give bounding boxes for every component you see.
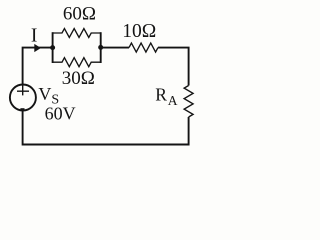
wire: node B to 10-ohm resistor: [101, 47, 129, 49]
svg-text:60Ω: 60Ω: [63, 4, 96, 25]
node B junction dot: [98, 45, 103, 50]
svg-text:I: I: [31, 26, 38, 47]
voltage source plus sign: [17, 85, 29, 95]
wire: 10-ohm resistor to right vertical down to RA top: [158, 48, 189, 86]
wire: bottom loop (source bottom, bottom rail, right vertical up to RA bottom): [23, 111, 189, 145]
voltage source minus sign: [20, 108, 24, 110]
svg-text:60V: 60V: [45, 104, 76, 124]
node A junction dot: [50, 45, 55, 50]
wire: parallel box left vertical: [52, 32, 54, 63]
resistor R 30ohm (bottom branch zigzag with stubs): [53, 58, 101, 67]
resistor RA vertical zigzag: [184, 86, 193, 118]
svg-text:30Ω: 30Ω: [62, 68, 95, 89]
wire: left vertical + top-left horizontal to node A: [23, 48, 53, 85]
resistor R 60ohm (top branch zigzag with stubs): [53, 29, 101, 38]
resistor 10ohm zigzag: [129, 43, 158, 52]
current arrow I (filled triangle on wire): [34, 44, 41, 52]
voltage source VS circle: [10, 85, 36, 111]
wire: parallel box right vertical: [100, 32, 102, 63]
svg-text:10Ω: 10Ω: [122, 21, 156, 42]
